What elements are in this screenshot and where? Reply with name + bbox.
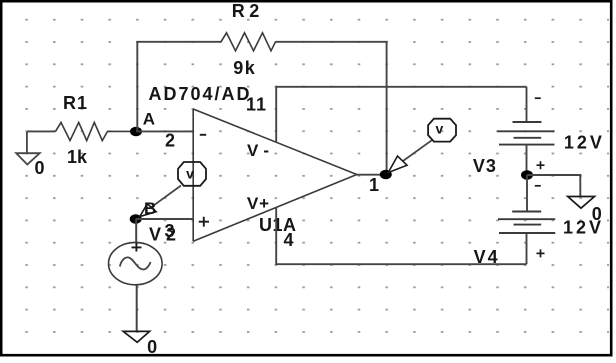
- minus marker (V4 top): [535, 185, 541, 187]
- plus marker (V3 bottom): [537, 161, 545, 169]
- voltmeter U3 octagon: [178, 162, 206, 186]
- svg-text:12V: 12V: [563, 218, 601, 238]
- svg-text:AD704/AD: AD704/AD: [149, 84, 250, 104]
- op-amp plus input marker: [199, 217, 209, 227]
- svg-text:B: B: [144, 199, 156, 218]
- plus marker (V4 bottom): [537, 249, 545, 257]
- battery V4 stem bottom: [526, 233, 528, 264]
- wire mid node to right ground: [527, 175, 580, 197]
- wire node B to op-amp pin 3: [136, 218, 194, 220]
- svg-text:V4: V4: [474, 247, 498, 267]
- wire node A up to R2: [137, 42, 221, 131]
- voltmeter probe wire to node B: [144, 186, 182, 213]
- op-amp U1 triangle: [193, 109, 357, 241]
- ground GND2 (below source): [123, 331, 149, 342]
- battery V4 stem top: [526, 175, 528, 212]
- battery V4 plates: [498, 212, 555, 234]
- wire node B down to source V2: [135, 219, 137, 243]
- svg-text:9k: 9k: [233, 58, 255, 78]
- wire op-amp pin 4 down to bottom rail: [276, 207, 526, 264]
- svg-text:V3: V3: [473, 156, 496, 176]
- AC source V2 circle: [109, 242, 163, 284]
- svg-text:0: 0: [35, 158, 45, 178]
- probe arrowhead at node B: [140, 204, 156, 217]
- svg-text:V+: V+: [247, 194, 269, 213]
- voltmeter U2 octagon: [428, 119, 456, 142]
- battery V3 plates: [497, 122, 554, 145]
- wire op-amp pin 11 up and right to battery V3: [276, 87, 526, 142]
- wire R2 right lead down to output node: [276, 42, 387, 170]
- battery V3 stem top: [526, 87, 528, 122]
- probe arrowhead at output node: [388, 156, 407, 173]
- svg-text:4: 4: [284, 230, 294, 250]
- svg-text:v: v: [436, 120, 444, 136]
- resistor R2: [221, 33, 276, 51]
- svg-text:v: v: [186, 166, 194, 182]
- svg-text:1k: 1k: [67, 147, 88, 167]
- output node junction dot: [380, 170, 392, 179]
- mid supply node junction dot: [521, 170, 533, 179]
- ground GND1 (left of R1): [16, 132, 40, 165]
- minus marker (V3 top): [535, 97, 541, 99]
- svg-text:2: 2: [165, 131, 175, 151]
- svg-text:11: 11: [246, 95, 266, 115]
- source plus marker: [132, 243, 142, 252]
- svg-text:R1: R1: [63, 93, 87, 113]
- svg-text:A: A: [143, 110, 155, 129]
- resistor R1: [56, 122, 135, 140]
- battery V3 stem bottom: [526, 145, 528, 175]
- source sine wave: [120, 257, 151, 269]
- wire R1 left lead: [27, 130, 56, 132]
- svg-text:1: 1: [369, 175, 379, 195]
- voltmeter probe wire to output node: [396, 140, 432, 166]
- wire source V2 down to ground: [136, 285, 138, 332]
- node A junction dot: [130, 127, 142, 136]
- op-amp minus input marker: [200, 134, 206, 136]
- wire node A to op-amp pin 2: [136, 130, 193, 132]
- node B junction dot: [130, 214, 142, 223]
- svg-text:12V: 12V: [564, 133, 602, 153]
- wire op-amp output to node: [357, 174, 387, 176]
- svg-text:0: 0: [147, 337, 157, 357]
- ground GND3 (right): [568, 197, 595, 209]
